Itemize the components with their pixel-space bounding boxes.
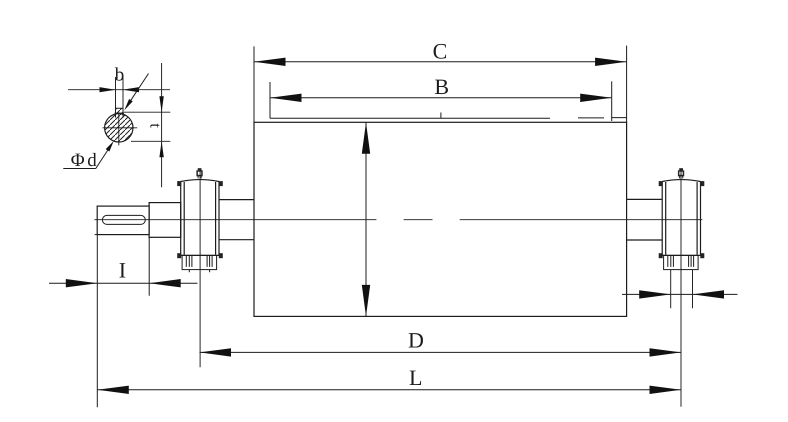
shaft left bearing-to-drum [219,200,254,240]
Phi d leader [96,149,109,169]
detail: key bump [116,108,124,116]
Phi d underline [63,168,96,170]
dimension C line [254,61,627,63]
svg-text:t: t [146,123,163,128]
svg-text:b: b [115,65,125,86]
svg-text:L: L [409,365,422,390]
right bearing block [659,168,705,269]
left bearing grease nipple [198,168,202,170]
svg-text:C: C [433,38,448,63]
shaft right drum-to-bearing [627,199,663,240]
svg-text:I: I [119,258,126,283]
svg-text:B: B [434,74,449,99]
right bearing base dimension (unlabeled) [622,293,738,295]
I right extension line [148,237,150,295]
dimension D line [200,351,682,353]
dimension L line [97,389,681,391]
dimension drum diameter (vertical, unlabeled) [365,122,367,316]
right bearing body side walls [662,182,700,256]
L left extension line [96,235,98,408]
shaft left segment 2 [149,203,181,238]
dim b line [68,89,170,91]
dimension C extension lines [254,46,627,123]
right bearing grease nipple [679,168,683,170]
dimension B line [270,97,612,99]
left bearing cap arc [181,180,219,182]
dimension B extension lines [270,81,612,121]
main horizontal centerline [94,219,702,221]
left bearing corner bolts [177,181,181,186]
keyway leader [129,74,149,104]
left bearing body side walls [181,182,219,256]
right bearing cap arc [662,180,700,182]
right bearing body bottom [662,254,700,256]
dim t vertical line [161,63,163,187]
detail: circle centerlines [103,112,138,145]
right bearing base bolt extension lines [671,270,693,309]
drum body [254,122,627,316]
keyway slot [102,215,145,224]
svg-text:Φd: Φd [71,150,100,171]
shaft left segment 1 [97,206,149,235]
dim t extension lines [124,112,171,141]
left bearing centerline [199,169,201,367]
dim b extension lines [116,77,124,108]
right bearing base slots [668,255,694,267]
left bearing base [182,255,217,269]
detail: shaft section circle [105,114,133,142]
left bearing block [177,168,223,272]
right bearing centerline [680,169,682,407]
left bearing base slots [186,255,212,267]
dimension I line [49,282,198,284]
left bearing body bottom [181,254,219,256]
svg-text:D: D [408,328,424,353]
drum face line [270,113,627,119]
right bearing base [664,255,699,269]
right bearing corner bolts [659,181,663,186]
